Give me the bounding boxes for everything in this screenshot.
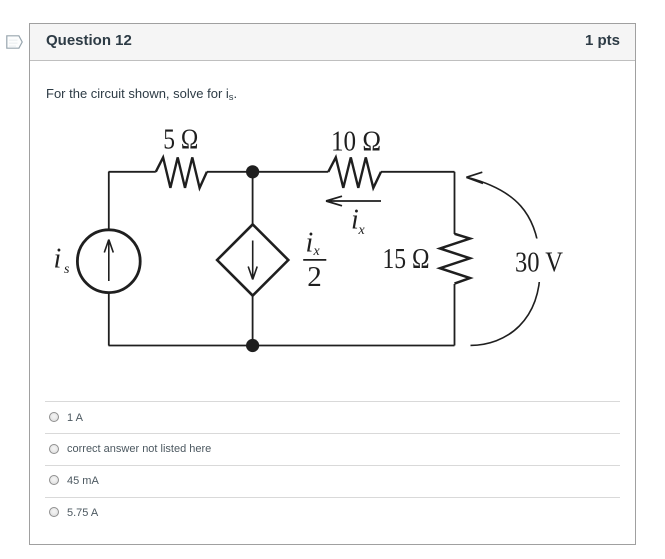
svg-text:x: x <box>313 244 321 259</box>
svg-text:2: 2 <box>307 261 322 293</box>
svg-text:s: s <box>64 262 70 277</box>
svg-text:x: x <box>358 223 366 238</box>
svg-text:5 Ω: 5 Ω <box>163 124 198 156</box>
svg-text:15 Ω: 15 Ω <box>383 243 430 275</box>
svg-text:i: i <box>54 244 62 275</box>
svg-text:i: i <box>306 228 314 259</box>
svg-text:30 V: 30 V <box>515 247 563 279</box>
svg-text:10 Ω: 10 Ω <box>331 125 381 157</box>
